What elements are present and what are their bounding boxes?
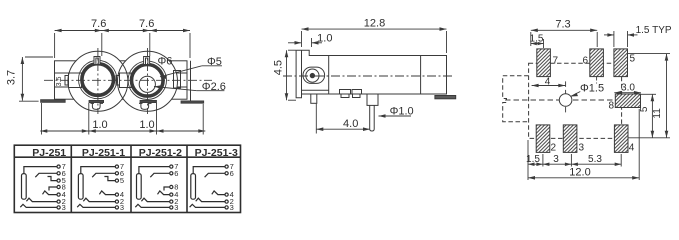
- svg-text:7.6: 7.6: [91, 18, 106, 30]
- svg-text:3.5: 3.5: [56, 77, 63, 87]
- sleeve bar 3: [137, 174, 142, 200]
- side inner vertical front: [328, 56, 330, 95]
- wire pin3 c1: [20, 204, 56, 207]
- wire pin7 c1: [24, 167, 57, 174]
- table outer border: [14, 145, 240, 212]
- dashed barrel bump: [503, 76, 529, 122]
- dimension 1.0 step: [288, 38, 322, 47]
- right mounting foot: [181, 101, 204, 103]
- side inner vertical rear: [420, 56, 422, 95]
- dimension 7.3: [531, 30, 597, 47]
- svg-text:3: 3: [230, 203, 234, 212]
- svg-text:1.0: 1.0: [92, 119, 107, 131]
- boss circle left outline: [68, 51, 128, 111]
- boss circle right outline: [118, 51, 178, 111]
- wire pin8 c3: [164, 187, 169, 191]
- svg-text:3.7: 3.7: [6, 70, 18, 85]
- front bottom tab: [311, 94, 317, 103]
- side body outline: [296, 50, 446, 97]
- schematic PJ-251-3: [190, 165, 229, 209]
- dimension 4.5: [287, 50, 297, 100]
- barrel circle: [306, 69, 319, 82]
- dimension 1.0 1.0 bottom: [40, 103, 205, 135]
- wire pin6 c4: [205, 173, 225, 177]
- svg-text:PJ-251-2: PJ-251-2: [139, 147, 182, 159]
- housing inner line upper: [55, 72, 188, 74]
- dimension 3.7 left: [19, 57, 53, 101]
- pin cup right: [139, 103, 152, 109]
- centerline side view: [283, 75, 454, 77]
- svg-text:1.5: 1.5: [526, 154, 540, 165]
- pin base bar right: [140, 100, 157, 102]
- side inner line bottom: [302, 89, 329, 91]
- bottom tab rects: [340, 90, 351, 95]
- dimension 4: [532, 85, 566, 87]
- ear right of right circle: [174, 71, 181, 89]
- svg-text:1.5 TYP: 1.5 TYP: [636, 25, 672, 36]
- wire pin5 c2: [104, 177, 115, 181]
- wire pin4 c4: [212, 191, 225, 195]
- wire pin6 c1: [35, 173, 56, 177]
- label phi1.5 with leader: [571, 92, 581, 97]
- dimension 12.8: [302, 29, 447, 53]
- sleeve bar 2: [78, 174, 83, 200]
- svg-text:4: 4: [629, 143, 635, 154]
- barrel dot: [310, 73, 314, 77]
- svg-text:3: 3: [553, 154, 559, 165]
- dimension 1.5 top-left: [531, 39, 544, 48]
- wire pin2 c2: [83, 198, 115, 201]
- divider 1: [70, 145, 72, 212]
- dimension 12.0: [528, 177, 639, 179]
- housing inner line lower: [55, 86, 188, 88]
- header underline: [14, 156, 240, 158]
- svg-text:3: 3: [174, 203, 178, 212]
- svg-text:7.3: 7.3: [555, 18, 570, 30]
- pad 7: [537, 49, 551, 77]
- housing body outline: [55, 61, 188, 99]
- svg-text:1.0: 1.0: [139, 119, 154, 131]
- dimension 4.0: [316, 104, 370, 134]
- wire pin3 c4: [190, 204, 225, 207]
- svg-text:3: 3: [62, 203, 66, 212]
- dimension 5 right: [628, 94, 670, 138]
- svg-text:6: 6: [174, 169, 178, 178]
- dimension 11 right: [628, 54, 671, 138]
- svg-text:2: 2: [551, 143, 557, 154]
- svg-text:11: 11: [652, 108, 663, 119]
- centerline vertical pcb: [565, 81, 567, 113]
- svg-text:Φ5: Φ5: [207, 56, 222, 68]
- svg-text:4.5: 4.5: [273, 60, 285, 75]
- svg-text:12.8: 12.8: [364, 18, 385, 30]
- pad 2: [536, 125, 550, 152]
- svg-text:Φ2.6: Φ2.6: [202, 81, 226, 93]
- divider 2: [130, 145, 132, 212]
- small hole right (phi2.6): [139, 76, 155, 92]
- wire pin3 c3: [135, 204, 169, 207]
- label phi1.0 with leader: [379, 115, 412, 117]
- wire pin6 c3: [150, 173, 169, 177]
- dashed body outline: [529, 63, 622, 138]
- schematic PJ-251-1: [77, 165, 118, 209]
- divider 3: [186, 145, 188, 212]
- wire pin2 c3: [141, 198, 169, 201]
- pad 5: [614, 49, 628, 77]
- wire pin7 c4: [193, 167, 225, 174]
- centerline vertical right circle: [147, 48, 149, 114]
- svg-text:4: 4: [545, 76, 551, 87]
- mount hole phi1.5: [559, 94, 572, 107]
- svg-text:12.0: 12.0: [569, 167, 590, 179]
- sleeve bar 4: [191, 174, 196, 200]
- svg-text:5: 5: [630, 54, 636, 65]
- terminals c1: [57, 165, 60, 168]
- svg-text:3: 3: [120, 203, 124, 212]
- terminals c4: [225, 165, 228, 168]
- svg-text:6: 6: [230, 169, 234, 178]
- boss circle left (white fill): [68, 51, 128, 111]
- wire pin6 c2: [92, 173, 115, 177]
- boss circle right (white fill): [118, 51, 178, 111]
- barrel rounded: [303, 67, 325, 83]
- pad 3: [563, 125, 577, 152]
- centerline horizontal pcb: [505, 99, 614, 101]
- pin cup left: [91, 103, 104, 109]
- dimension 7.6 / 7.6 top: [55, 31, 190, 59]
- wire pin5 c1: [48, 177, 57, 181]
- centerline pad6 stub: [596, 77, 598, 84]
- wire pin2 c4: [196, 198, 225, 201]
- bottom dims 1.5 / 3 / 5.3: [528, 109, 639, 180]
- pin base bar left: [89, 100, 104, 102]
- svg-text:Φ1.5: Φ1.5: [580, 83, 604, 95]
- svg-text:6: 6: [583, 56, 589, 67]
- svg-text:1.0: 1.0: [317, 33, 332, 45]
- svg-text:3.0: 3.0: [621, 82, 635, 93]
- dimension 1.5 TYP: [604, 31, 638, 47]
- svg-text:3: 3: [579, 143, 585, 154]
- wire pin3 c2: [77, 204, 115, 207]
- right bracket plate: [190, 61, 192, 101]
- jack hole right (phi5): [128, 61, 166, 99]
- rear plate: [435, 96, 456, 99]
- dimension 3.0: [614, 92, 641, 94]
- label phi5 with leader: [202, 65, 222, 67]
- wire pin4 c2: [99, 191, 115, 195]
- jack hole left (phi5): [79, 60, 117, 98]
- ear left of left circle: [69, 73, 82, 88]
- svg-text:8: 8: [609, 101, 615, 112]
- svg-text:PJ-251: PJ-251: [32, 147, 66, 159]
- svg-text:Φ1.0: Φ1.0: [390, 105, 414, 117]
- sleeve bar 1: [22, 174, 27, 200]
- ear left of right circle: [120, 73, 132, 88]
- terminals c3: [170, 165, 173, 168]
- wire pin2 c1: [26, 198, 56, 201]
- svg-text:5: 5: [120, 176, 124, 185]
- top tab left: [94, 57, 100, 65]
- pad 6: [590, 49, 604, 77]
- terminals c2: [115, 165, 118, 168]
- svg-text:4.0: 4.0: [343, 118, 358, 130]
- left mounting foot: [41, 100, 66, 103]
- wire pin7 c3: [139, 167, 170, 174]
- schematic PJ-251-2: [135, 165, 173, 209]
- svg-text:PJ-251-3: PJ-251-3: [195, 147, 238, 159]
- svg-text:1.5: 1.5: [530, 34, 544, 45]
- svg-text:Φ6: Φ6: [158, 56, 173, 68]
- centerline vertical left circle: [97, 48, 99, 114]
- wire pin7 c2: [81, 167, 115, 174]
- center pin shaft: [370, 105, 375, 131]
- wire pin4 c3: [158, 191, 170, 195]
- svg-text:7: 7: [553, 56, 559, 67]
- svg-text:PJ-251-1: PJ-251-1: [82, 147, 125, 159]
- centerline horizontal front view: [44, 79, 212, 81]
- schematic PJ-251: [20, 165, 60, 209]
- svg-text:5: 5: [639, 106, 650, 112]
- svg-text:7.6: 7.6: [139, 18, 154, 30]
- pad 4: [614, 125, 628, 152]
- top tab right: [144, 57, 150, 65]
- center pin collar: [367, 94, 378, 105]
- pad 8: [615, 94, 640, 108]
- label phi2.6 with leader: [197, 90, 225, 92]
- wire pin8 c1: [49, 187, 57, 191]
- svg-text:5.3: 5.3: [588, 154, 602, 165]
- wire pin4 c1: [43, 191, 57, 195]
